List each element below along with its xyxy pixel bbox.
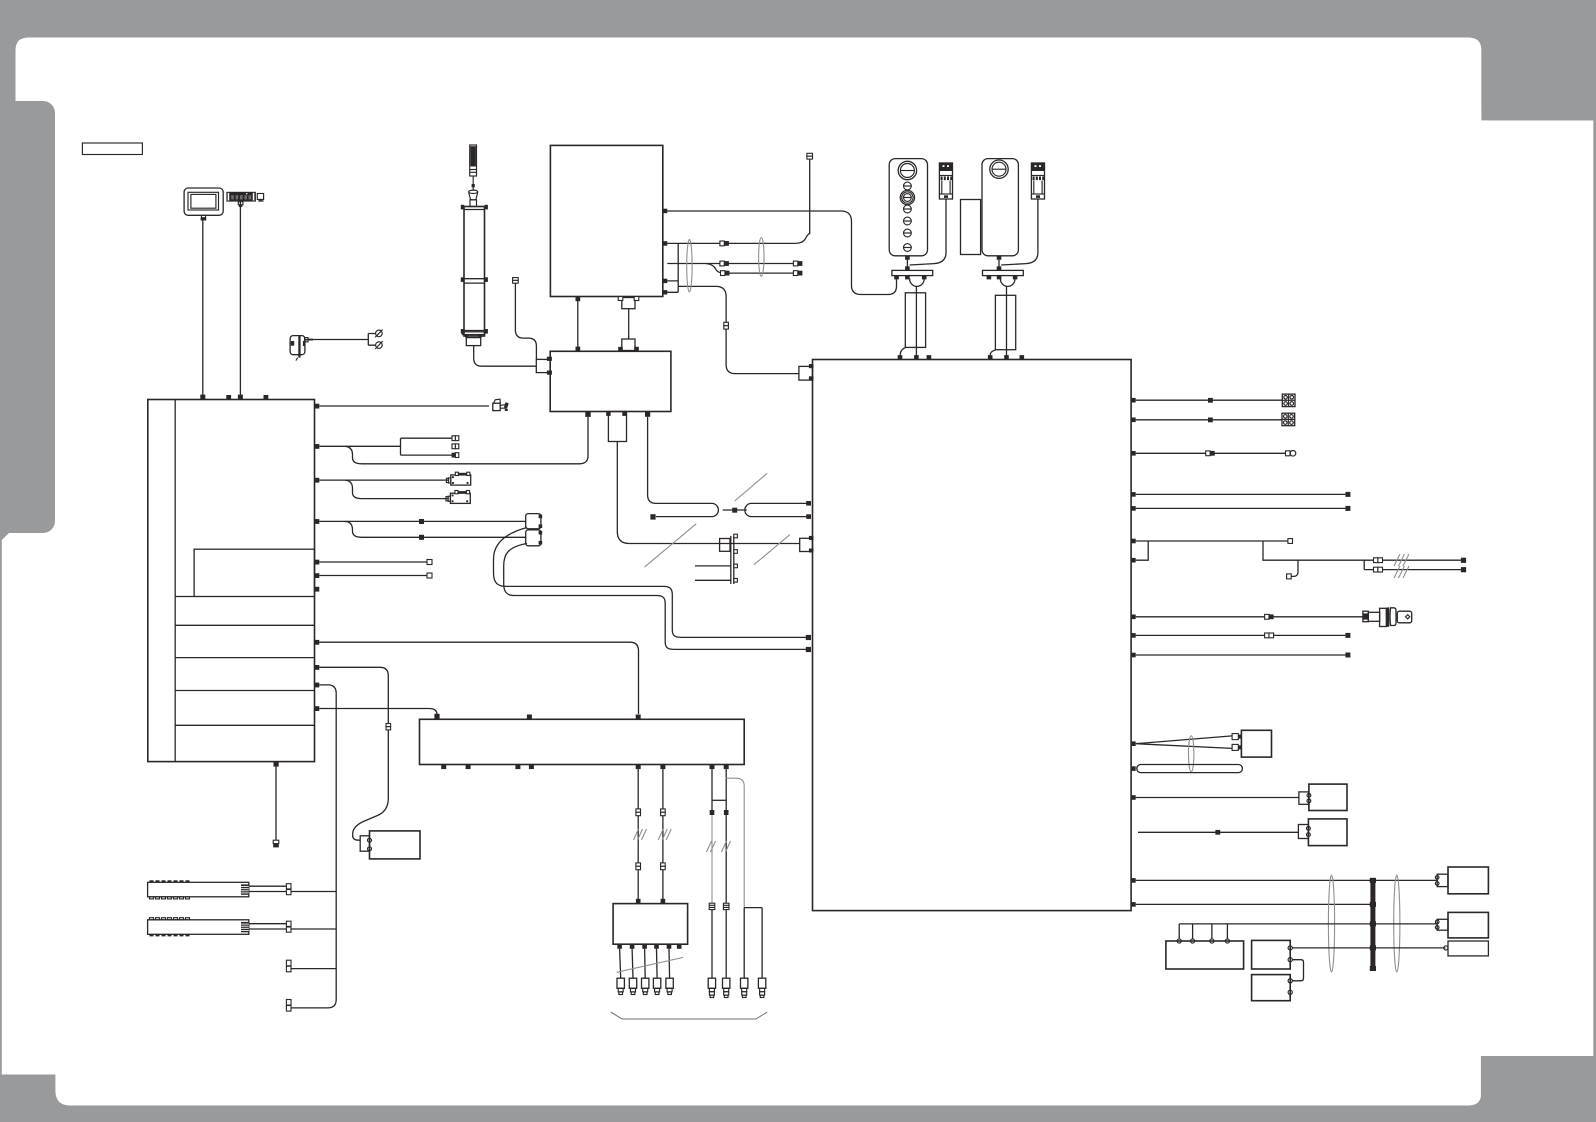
right coil side lead bbox=[990, 350, 996, 356]
oxygen sensor box bbox=[1308, 819, 1347, 846]
coil pack bottom pins bbox=[617, 944, 681, 949]
ECM left plug connector bbox=[536, 357, 552, 375]
diagonal mark 1 bbox=[735, 473, 768, 501]
sensor wire right 1 tail bbox=[711, 906, 713, 978]
stub pin on fuse box top A bbox=[226, 395, 231, 400]
right ignition coil bbox=[995, 295, 1015, 349]
diagonal mark 2 bbox=[645, 524, 697, 567]
pin harness right R3 bbox=[1131, 451, 1136, 456]
speed sensor box bbox=[1309, 784, 1347, 810]
fusible link strip 2 bbox=[148, 918, 249, 937]
junction box sub-compartment bottom extension bbox=[175, 596, 194, 598]
pin row on junction box right edge bbox=[315, 404, 320, 711]
multi-pin connector strip (black) bbox=[226, 192, 263, 207]
right switch bottom pin bbox=[997, 256, 1002, 260]
spark plug cap 1 bbox=[617, 978, 624, 994]
wire W8 to regulator plug bbox=[319, 667, 388, 840]
wire right switch to bar bbox=[998, 260, 1000, 271]
pin harness right R1 bbox=[1131, 398, 1136, 403]
sensor wire right 1 bbox=[711, 769, 713, 812]
wire W2 with 3-way bracket bbox=[319, 436, 459, 458]
regulator plug bbox=[360, 836, 371, 851]
wire R1 to turn signal 1 bbox=[1136, 399, 1283, 401]
right coil center lead bbox=[1006, 286, 1008, 355]
inline half connector on sensor bus bbox=[720, 539, 730, 552]
turn signal lamp 1 bbox=[1282, 394, 1295, 407]
wire W9 ground bus bbox=[291, 685, 336, 1008]
connector end W6 bbox=[427, 573, 432, 578]
bus tap wire 3 bbox=[291, 968, 336, 970]
pin harness right R6 bbox=[1131, 539, 1136, 544]
inline connector oxygen sensor bbox=[1215, 830, 1220, 835]
connector pair on R8 bbox=[1265, 614, 1274, 619]
wire ECU to ECM bbox=[577, 301, 579, 351]
left bar (clutch lever bracket) bbox=[892, 270, 933, 275]
wire WC bbox=[667, 263, 793, 265]
bus tap wire to fusible link 1 bbox=[291, 891, 336, 893]
pin speedometer wire bbox=[200, 395, 205, 400]
junction box bottom pin bbox=[274, 762, 279, 767]
pin harness right R10 bbox=[1131, 653, 1136, 658]
left coil side lead bbox=[900, 347, 906, 355]
twisted pair leads to cam sensor bbox=[1136, 736, 1232, 749]
wire to oxygen sensor bbox=[1138, 831, 1298, 833]
turn signal lamp 2 bbox=[1282, 413, 1295, 426]
brake reservoir block bbox=[961, 200, 981, 255]
plug block 1 bbox=[526, 514, 542, 529]
wire W3 branch to sensor 2 bbox=[345, 480, 449, 499]
connector sensor wire 1 bbox=[710, 810, 715, 815]
inline connector on W4 branch bbox=[419, 535, 424, 540]
pin right coil side lead bbox=[988, 355, 993, 359]
wire R2 to turn signal 2 bbox=[1136, 419, 1282, 421]
pin knock sensor pair bbox=[1131, 741, 1136, 746]
wire W4a from plug block 1 to main harness box bbox=[494, 528, 807, 638]
wire speedometer to fuse box bbox=[202, 219, 204, 395]
connector pair on WD bbox=[721, 271, 730, 276]
stub pin right of right coil bbox=[1020, 355, 1025, 359]
plug block 2 bbox=[526, 530, 542, 546]
left coil center lead bbox=[915, 286, 917, 355]
connector pair on R6c bbox=[1374, 567, 1383, 572]
left dome boot bbox=[910, 279, 925, 287]
wire W2 branch to relay box pin bbox=[345, 417, 588, 464]
pin harness right R4 bbox=[1131, 492, 1136, 497]
end connector WD bbox=[793, 271, 802, 276]
wire striped connector 2 to bar bbox=[1001, 199, 1038, 265]
right handlebar switch bbox=[982, 159, 1018, 256]
link between sensor wires bbox=[712, 799, 726, 801]
pin harness right R2 bbox=[1131, 418, 1136, 423]
stub pin ignition box top bbox=[527, 715, 532, 720]
wire striped connector to bar bbox=[910, 199, 946, 265]
tail lamp plug B bbox=[1435, 919, 1448, 930]
ground bolt 2 bbox=[375, 341, 382, 349]
tail wire B bbox=[1136, 903, 1373, 905]
pin harness right R5 bbox=[1131, 506, 1136, 511]
pin left coil side lead bbox=[898, 355, 903, 359]
tail wire C bbox=[1179, 923, 1437, 925]
chafe marks sensor wire 2 bbox=[722, 841, 731, 852]
wire tilt sensor to ground bolts bbox=[313, 334, 376, 346]
title label box bbox=[82, 143, 142, 155]
pin tail harness A bbox=[1131, 878, 1136, 883]
sensor 2 (switch with 2-pin plug) bbox=[446, 491, 470, 504]
left handlebar switch bbox=[889, 159, 927, 256]
right switch wire connector striped bbox=[1031, 163, 1044, 199]
harness wrap ellipse knock leads bbox=[1189, 736, 1194, 772]
pin at ECM top bbox=[576, 347, 581, 352]
junction box row divider 3 bbox=[175, 690, 314, 692]
connector end W5 bbox=[427, 560, 432, 565]
position lamp connector bbox=[1286, 451, 1296, 457]
right dome boot bbox=[1000, 279, 1015, 287]
wire W6 stub bbox=[319, 575, 427, 577]
coil pack box bbox=[613, 904, 688, 945]
wire connector strip to fuse box bbox=[239, 202, 241, 396]
junction box inner column line bbox=[174, 400, 176, 762]
wire W4b from plug block 2 to main harness box bbox=[504, 544, 807, 650]
tail lamp plug A bbox=[1435, 874, 1448, 886]
tail wire D bbox=[1292, 947, 1445, 949]
inline connector on W4 bbox=[419, 519, 424, 524]
wire W10 to ignition control box bbox=[319, 709, 437, 715]
ignition control box (wide) bbox=[420, 719, 745, 764]
wire R8 to spark plug bbox=[1136, 616, 1363, 618]
pin harness right R9 bbox=[1131, 633, 1136, 638]
connector pair fusible link 2 bbox=[286, 921, 291, 932]
wire W1 to accessory plug bbox=[319, 405, 489, 407]
tail lamp box A bbox=[1448, 867, 1488, 894]
speed sensor plug bbox=[1299, 792, 1311, 804]
wire WA to left switch dome bbox=[667, 211, 896, 295]
junction box sub-compartment bbox=[194, 549, 314, 596]
ECU bottom connector lower block bbox=[618, 339, 639, 351]
chafe marks R6c bbox=[1394, 566, 1409, 578]
left thumb tab bbox=[0, 101, 55, 533]
link wire brake box 1 to 2 bbox=[1292, 960, 1303, 981]
right bar bracket bbox=[983, 270, 1024, 275]
dangling ground lead bbox=[275, 767, 277, 841]
ECM under-block connector bbox=[606, 412, 627, 442]
twin leads fusible link 1 bbox=[249, 886, 287, 891]
wire R4 stub bbox=[1136, 493, 1346, 495]
connector end ground lead bbox=[273, 840, 279, 847]
pin ECU right edge 3 bbox=[663, 279, 668, 283]
junction box row divider 2 bbox=[175, 657, 314, 659]
connector pair bus tap 3 bbox=[286, 960, 291, 972]
chafe marks primary wire 1 bbox=[634, 829, 647, 840]
wire R9 stub bbox=[1136, 634, 1346, 636]
rear brake box 2 bbox=[1252, 975, 1293, 1001]
regulator box bbox=[370, 831, 421, 859]
ignition primary wire 2 bbox=[662, 769, 664, 904]
pin ECU aux bbox=[576, 297, 581, 302]
pin W4b at harness box bbox=[806, 647, 811, 652]
end connector WC bbox=[793, 261, 802, 266]
stub lead strip pin 4 bbox=[695, 579, 731, 581]
wire to speed sensor bbox=[1136, 797, 1299, 799]
junction box row divider 1 bbox=[175, 624, 314, 626]
branch wire R6c bbox=[1364, 560, 1461, 569]
ECU bottom connector upper block bbox=[618, 297, 639, 309]
pin at coil pack box 2 bbox=[661, 899, 666, 904]
spark plug cap 3 bbox=[642, 978, 649, 994]
spark plug cap 2 bbox=[629, 978, 636, 994]
sensor plug cap 3 bbox=[741, 978, 748, 997]
end connector hanging stub bbox=[1287, 574, 1292, 579]
left switch bottom pin bbox=[905, 256, 910, 260]
striped connector sensor wire 2 bbox=[723, 903, 729, 909]
end connector R6c bbox=[1461, 567, 1466, 572]
inhibitor terminal bbox=[513, 278, 519, 284]
junction box row divider 4 bbox=[175, 724, 314, 726]
end connector R6 stub bbox=[1288, 539, 1293, 544]
wire R5 stub bbox=[1136, 507, 1346, 509]
wire inhibitor terminal to ECM plug bbox=[515, 283, 536, 359]
pin ignition box top right bbox=[636, 715, 641, 720]
twisted pair right loop bbox=[745, 501, 811, 519]
accessory plug connector bbox=[493, 399, 509, 411]
connector pair on WC bbox=[720, 261, 729, 266]
end connector R9 bbox=[1345, 633, 1350, 638]
junction bar and drop wire to harness plug bbox=[667, 243, 799, 373]
end connector R5 bbox=[1345, 506, 1350, 511]
connector on primary wire 1 lower bbox=[636, 863, 641, 870]
pin ECM to twisted pair bbox=[645, 412, 650, 417]
wire R3 to position lamp bbox=[1136, 452, 1286, 454]
stub lead strip pin 3 bbox=[695, 565, 731, 567]
pin above bar right bbox=[997, 266, 1002, 270]
end connector R6b bbox=[1461, 558, 1466, 563]
ECM box (mid) bbox=[550, 351, 671, 411]
chafe marks R6b bbox=[1394, 554, 1409, 566]
cam sensor box bbox=[1241, 730, 1271, 757]
spark plug leads left bank bbox=[620, 949, 670, 978]
sensor plug cap 1 bbox=[708, 978, 715, 997]
connector on primary wire 2 upper bbox=[661, 809, 666, 816]
shielded wire loop bbox=[1137, 765, 1243, 773]
sensor branch wire right 3 bbox=[726, 778, 744, 907]
spark plug assembly bbox=[1363, 607, 1412, 626]
connector pair on R9 bbox=[1265, 633, 1274, 638]
wire W3 to sensor 1 bbox=[319, 479, 449, 481]
sensor 1 (switch with 2-pin plug) bbox=[446, 472, 470, 485]
wire WB to main relay terminal bbox=[667, 159, 809, 243]
harness wrap ellipse 1 bbox=[687, 240, 692, 292]
pin ECU right edge 1 bbox=[663, 209, 668, 214]
comb tick wires bbox=[1179, 924, 1227, 939]
reflector box C bbox=[1444, 941, 1489, 956]
end connector R4 bbox=[1345, 492, 1350, 497]
wire W4 branch to plug block 2 bbox=[345, 521, 526, 537]
fuse / junction box (left) bbox=[148, 400, 315, 762]
connector pair fusible link 1 bbox=[286, 884, 291, 895]
harness plug block mid-left bbox=[800, 536, 814, 553]
connector on primary wire 2 lower bbox=[661, 863, 666, 870]
pin ECU right edge 4 bbox=[663, 290, 668, 294]
pin connector strip wire bbox=[238, 395, 243, 400]
wire W7 to ignition control box bbox=[319, 642, 638, 714]
bus tap wire to fusible link 2 bbox=[291, 928, 336, 930]
pin left coil lead bbox=[914, 355, 919, 359]
pin tail harness B bbox=[1131, 902, 1136, 907]
tail ground bar bbox=[1370, 878, 1376, 971]
wire W4 to plug block 1 bbox=[319, 520, 525, 522]
chafe marks sensor wire 1 bbox=[707, 841, 716, 852]
inline connector pair R3 bbox=[1206, 451, 1215, 456]
4-pin connector strip vertical bbox=[731, 534, 738, 584]
main wire harness box bbox=[813, 360, 1132, 911]
tail lamp box B bbox=[1448, 912, 1488, 938]
bottom-right gray block bbox=[1481, 1056, 1596, 1122]
pins under left bar bbox=[894, 276, 926, 280]
spark plug cap 5 bbox=[666, 978, 673, 994]
pin shielded loop bbox=[1131, 766, 1136, 771]
wire R10 stub bbox=[1136, 654, 1346, 656]
spark plug cap 4 bbox=[653, 978, 660, 994]
twisted pair splice connector bbox=[723, 508, 747, 513]
license lamp comb box bbox=[1166, 939, 1244, 969]
right gray strip bbox=[1593, 0, 1596, 1122]
fuel pump assembly bbox=[461, 145, 488, 346]
sensor wire right 1 lower (shielded) bbox=[711, 812, 713, 906]
inline connector on drop wire bbox=[724, 322, 729, 329]
top-right gray block bbox=[1481, 0, 1596, 120]
harness wrap ellipse 2 bbox=[759, 238, 764, 277]
pin speed sensor bbox=[1131, 795, 1136, 800]
speedometer unit bbox=[184, 188, 223, 221]
connector sensor wire 2 bbox=[724, 810, 729, 815]
oxygen sensor plug bbox=[1298, 825, 1310, 839]
pin W10 at ignition control box bbox=[434, 714, 439, 720]
hanging stub off R6b bbox=[1291, 560, 1298, 576]
inline connector on W8 bbox=[386, 724, 391, 730]
connector pair on R6b bbox=[1374, 558, 1383, 563]
pin ECU right edge 2 bbox=[663, 241, 668, 246]
sensor wire right 2 bbox=[725, 769, 727, 978]
twin leads fusible link 2 bbox=[249, 924, 287, 929]
rear brake box 1 bbox=[1252, 940, 1293, 969]
connector pair cam sensor bbox=[1232, 734, 1241, 751]
tilt sensor body bbox=[290, 335, 313, 360]
connector pair bus end bbox=[286, 1000, 291, 1012]
pin W4a at harness box bbox=[806, 635, 811, 640]
wire R6/R7 ignition switch feed bbox=[1136, 541, 1461, 560]
diagonal mark over plug leads bbox=[617, 957, 684, 972]
harness wrap ellipse tail left bbox=[1328, 875, 1334, 972]
pin harness right R7 bbox=[1131, 558, 1136, 563]
sensor branch bridge bbox=[744, 908, 762, 979]
diagonal mark 3 bbox=[754, 535, 790, 565]
chafe marks primary wire 2 bbox=[658, 829, 671, 840]
pin harness right R8 bbox=[1131, 615, 1136, 620]
tail wire A bbox=[1136, 879, 1438, 881]
harness wrap ellipse tail right bbox=[1394, 875, 1400, 972]
group brace bbox=[611, 1012, 768, 1019]
stub pin on fuse box top B bbox=[264, 395, 269, 400]
wire ECM under-block to harness plug bbox=[617, 442, 799, 544]
inline connector R1 bbox=[1208, 398, 1213, 403]
sensor plug cap 2 bbox=[723, 978, 730, 997]
connector on primary wire 1 upper bbox=[636, 809, 641, 816]
pins ignition box bottom bbox=[441, 765, 729, 770]
wire left switch to bar bbox=[906, 260, 908, 271]
inline connector R2 bbox=[1208, 418, 1213, 423]
harness plug block upper-left bbox=[799, 364, 814, 381]
wire fuel pump to ECM plug bbox=[474, 346, 537, 367]
wire W5 stub bbox=[319, 561, 427, 563]
left switch wire connector striped bbox=[939, 163, 952, 199]
stub pin right of left coil bbox=[927, 355, 932, 359]
ground bolt 1 bbox=[375, 330, 382, 338]
pin at coil pack box 1 bbox=[636, 899, 641, 904]
sensor plug cap 4 bbox=[758, 978, 765, 997]
ignition primary wire 1 bbox=[637, 769, 639, 904]
striped connector sensor wire 1 bbox=[709, 903, 715, 909]
main relay terminal bbox=[807, 153, 813, 159]
left ignition coil bbox=[905, 293, 925, 348]
pins under right bar bbox=[987, 276, 1018, 280]
twisted pair left loop bbox=[648, 417, 719, 520]
pin above bar left bbox=[905, 266, 910, 270]
ECU box (top middle) bbox=[550, 145, 662, 296]
pin right coil lead bbox=[1004, 355, 1009, 359]
link between ECU blocks bbox=[628, 309, 630, 339]
connector pair on WB bbox=[720, 241, 729, 246]
end connector R10 bbox=[1345, 653, 1350, 658]
pin relay box bottom (from W2) bbox=[585, 412, 590, 417]
wire WD branch bbox=[706, 264, 793, 274]
fusible link strip 1 bbox=[148, 880, 249, 899]
